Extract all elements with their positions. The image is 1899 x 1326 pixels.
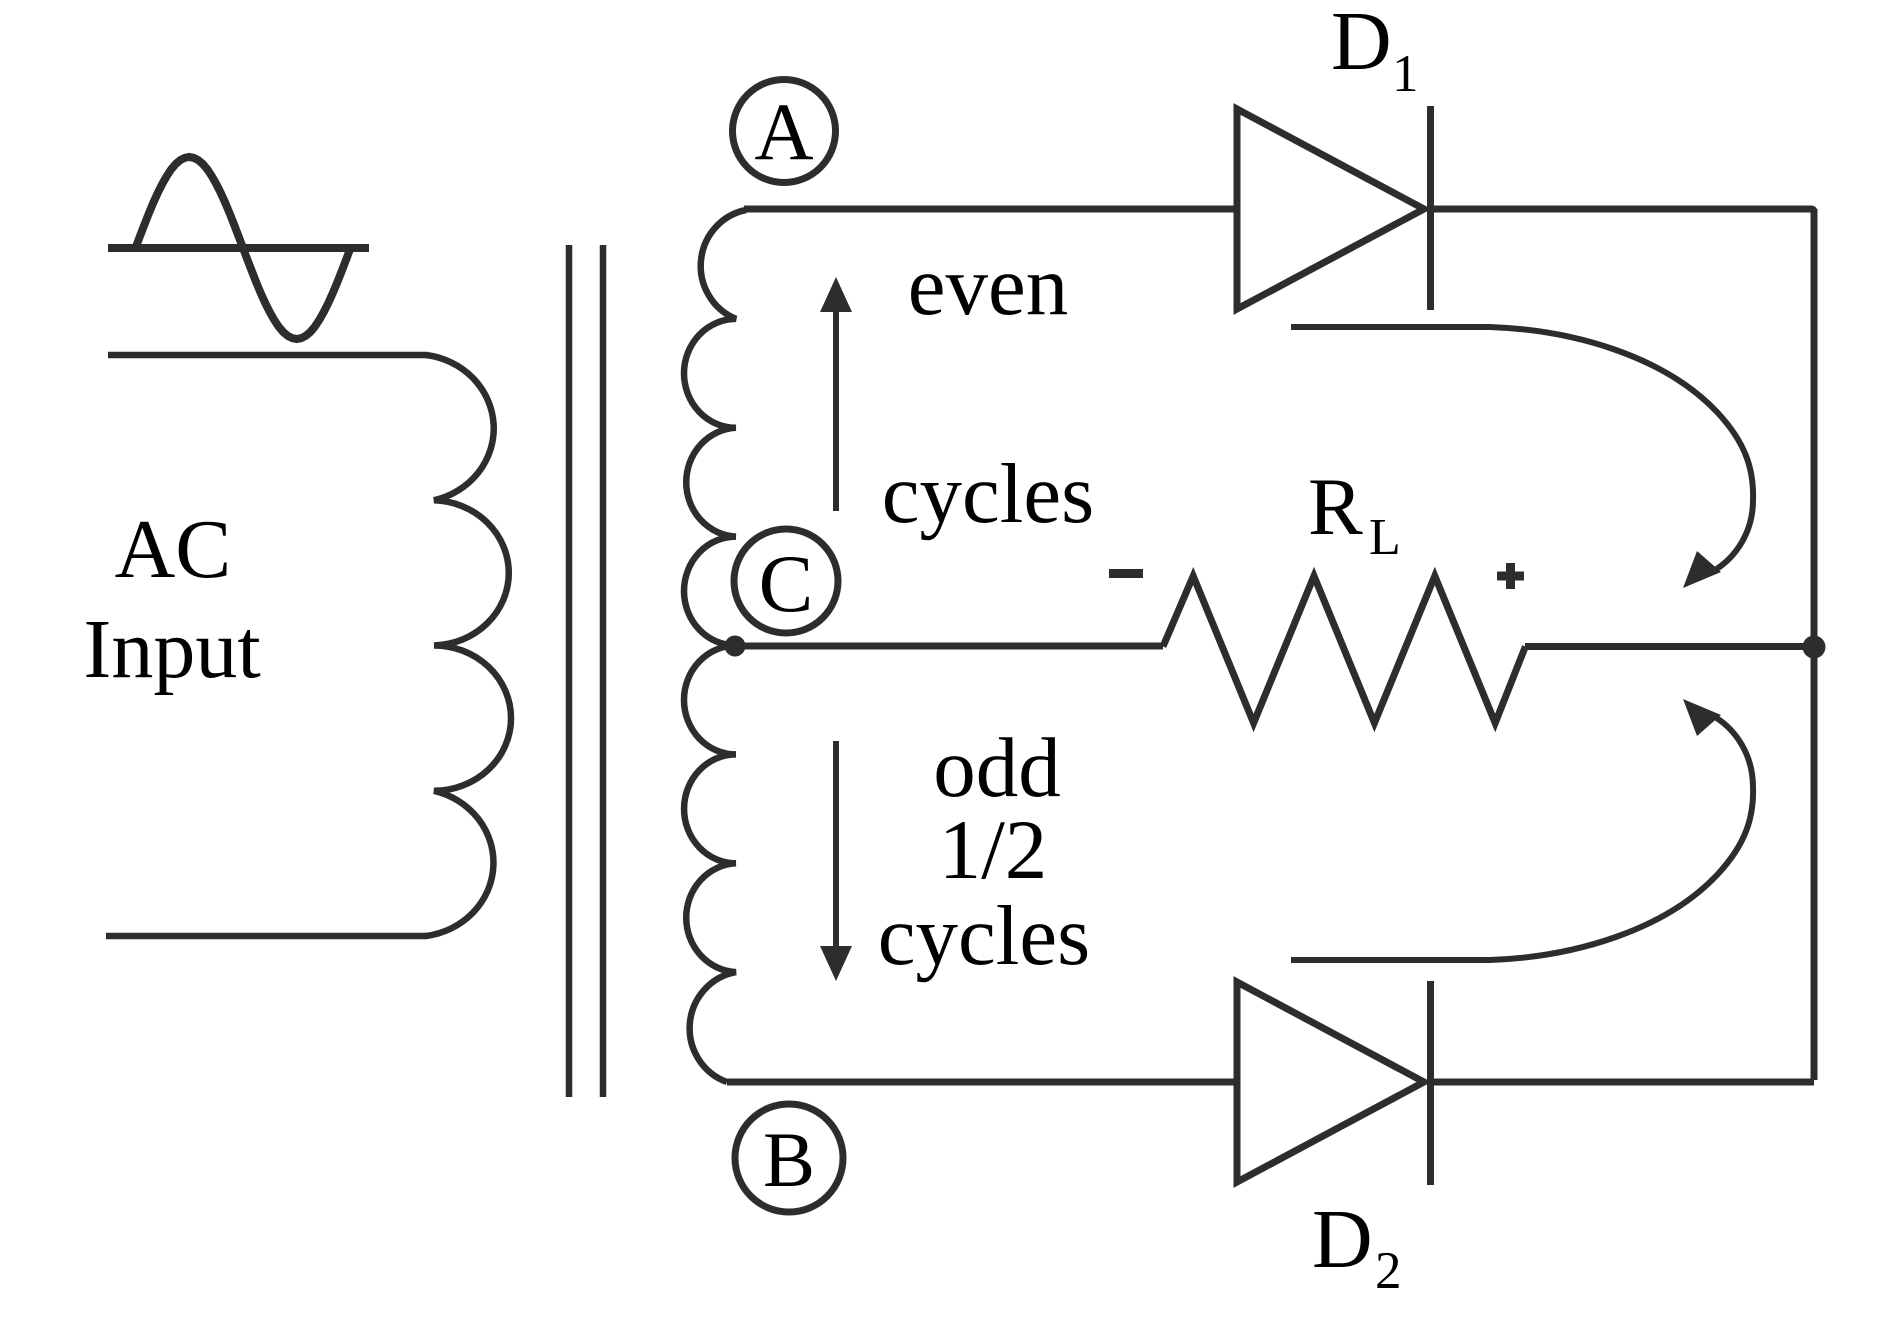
- svg-text:AC: AC: [115, 503, 232, 596]
- svg-text:R: R: [1308, 461, 1363, 552]
- svg-text:even: even: [908, 239, 1068, 333]
- node A terminal circle: [733, 80, 836, 183]
- svg-text:D: D: [1331, 0, 1392, 88]
- wire: D2 cathode to right rail: [1428, 1079, 1814, 1086]
- diode D2 cathode bar: [1427, 981, 1434, 1185]
- diode D1 triangle (anode): [1237, 109, 1424, 309]
- label: plus polarity mark: [1497, 563, 1524, 589]
- svg-text:1/2: 1/2: [939, 803, 1048, 897]
- svg-text:odd: odd: [933, 721, 1061, 815]
- transformer primary winding: [426, 355, 511, 936]
- svg-text:cycles: cycles: [882, 447, 1094, 541]
- curved arrow: odd half-cycle current return path: [1291, 717, 1753, 960]
- svg-text:cycles: cycles: [878, 889, 1090, 983]
- diode D2 triangle (anode): [1237, 982, 1424, 1182]
- resistor RL: [1163, 576, 1525, 723]
- svg-text:A: A: [754, 86, 813, 177]
- transformer secondary winding (center-tapped): [684, 210, 746, 1082]
- junction: center tap node: [725, 636, 746, 657]
- wire: center tap to load resistor: [735, 643, 1163, 650]
- arrow: even half-cycles current direction (up): [833, 309, 839, 511]
- svg-text:D: D: [1312, 1193, 1373, 1286]
- svg-text:Input: Input: [83, 603, 260, 696]
- curved arrow: even half-cycle current return path: [1291, 327, 1753, 570]
- wire: AC input top lead (primary top): [108, 352, 427, 359]
- junction: output node on right rail: [1803, 636, 1826, 659]
- wire: right rail: [1811, 209, 1818, 1080]
- label: minus polarity mark: [1109, 569, 1143, 578]
- wire: node A to diode D1 anode: [744, 206, 1237, 213]
- transformer core left bar: [566, 245, 573, 1097]
- AC input sine waveform axis line: [108, 244, 369, 252]
- node B terminal circle: [735, 1104, 843, 1212]
- wire: AC input bottom lead (primary bottom): [106, 933, 427, 940]
- svg-text:2: 2: [1375, 1242, 1402, 1300]
- wire: load resistor to output node: [1525, 643, 1814, 650]
- wire: node B to diode D2 anode: [727, 1079, 1237, 1086]
- AC input sine waveform: [136, 157, 351, 339]
- wire: D1 cathode to right rail: [1428, 209, 1814, 225]
- transformer core right bar: [600, 245, 607, 1097]
- arrow: odd half-cycles current direction (down): [833, 741, 839, 946]
- svg-text:L: L: [1369, 509, 1401, 566]
- svg-text:1: 1: [1392, 45, 1419, 103]
- svg-text:C: C: [759, 538, 814, 629]
- diode D1 cathode bar: [1427, 106, 1434, 310]
- node C terminal circle: [734, 529, 838, 633]
- svg-text:B: B: [763, 1116, 815, 1203]
